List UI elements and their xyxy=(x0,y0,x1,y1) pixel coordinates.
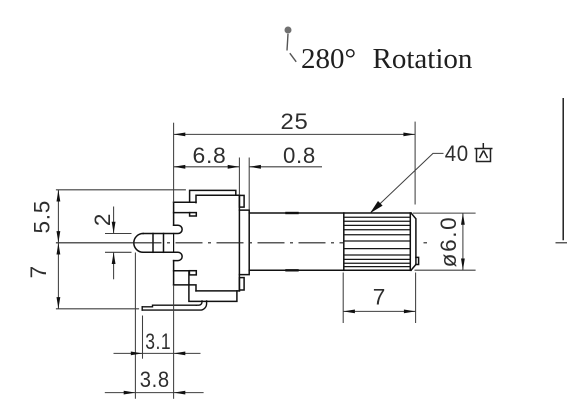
svg-text:7: 7 xyxy=(373,285,386,310)
svg-text:280°Rotation: 280°Rotation xyxy=(301,43,473,75)
svg-text:3.8: 3.8 xyxy=(140,367,170,392)
svg-text:5.5: 5.5 xyxy=(30,200,55,234)
svg-text:0.8: 0.8 xyxy=(283,143,316,168)
svg-text:2: 2 xyxy=(90,213,115,226)
svg-text:6.8: 6.8 xyxy=(193,143,227,168)
svg-text:ø6.0: ø6.0 xyxy=(436,216,461,268)
svg-text:25: 25 xyxy=(281,109,309,134)
svg-text:7: 7 xyxy=(26,265,51,278)
svg-text:40: 40 xyxy=(445,141,469,166)
svg-text:3.1: 3.1 xyxy=(145,329,171,354)
